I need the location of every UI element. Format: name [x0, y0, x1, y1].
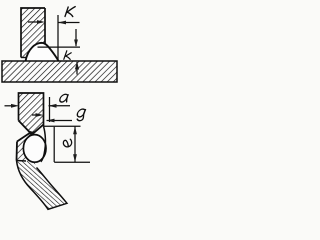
K dimension: arrow inside plate pointing right, tip at plate right edge — [28, 15, 80, 60]
joint lines over the oval, ending at its edge — [17, 121, 44, 161]
g dimension — [32, 113, 72, 122]
plate right edge over dome — [44, 8, 46, 44]
big weld lens (oval) — [23, 135, 46, 163]
K label — [65, 7, 75, 17]
e label (rotated) — [63, 139, 71, 147]
sheet2 end-cut — [32, 125, 44, 135]
sheet 1: upper vertical plate with beveled bottom — [19, 93, 44, 135]
dark converging vertex blob — [27, 129, 37, 136]
weld dome (white, round arch) — [26, 43, 59, 61]
right dim line with left arrow — [58, 22, 80, 24]
a dimension — [5, 97, 71, 122]
extension line x=58 — [57, 15, 59, 60]
k dimension — [38, 29, 81, 75]
a label — [59, 94, 68, 102]
right weld bead — [41, 126, 46, 162]
k label — [64, 51, 71, 60]
g label — [76, 109, 86, 121]
sheet 2: bent plate, upper wedge — [17, 131, 35, 162]
sheet2 upper bevel — [17, 133, 31, 142]
vertical plate (hatched) — [21, 8, 45, 58]
e dimension — [44, 126, 91, 162]
bottom plate — [2, 61, 117, 82]
sheet 2: bend band — [17, 161, 68, 210]
sheet1 left bevel — [19, 121, 33, 136]
